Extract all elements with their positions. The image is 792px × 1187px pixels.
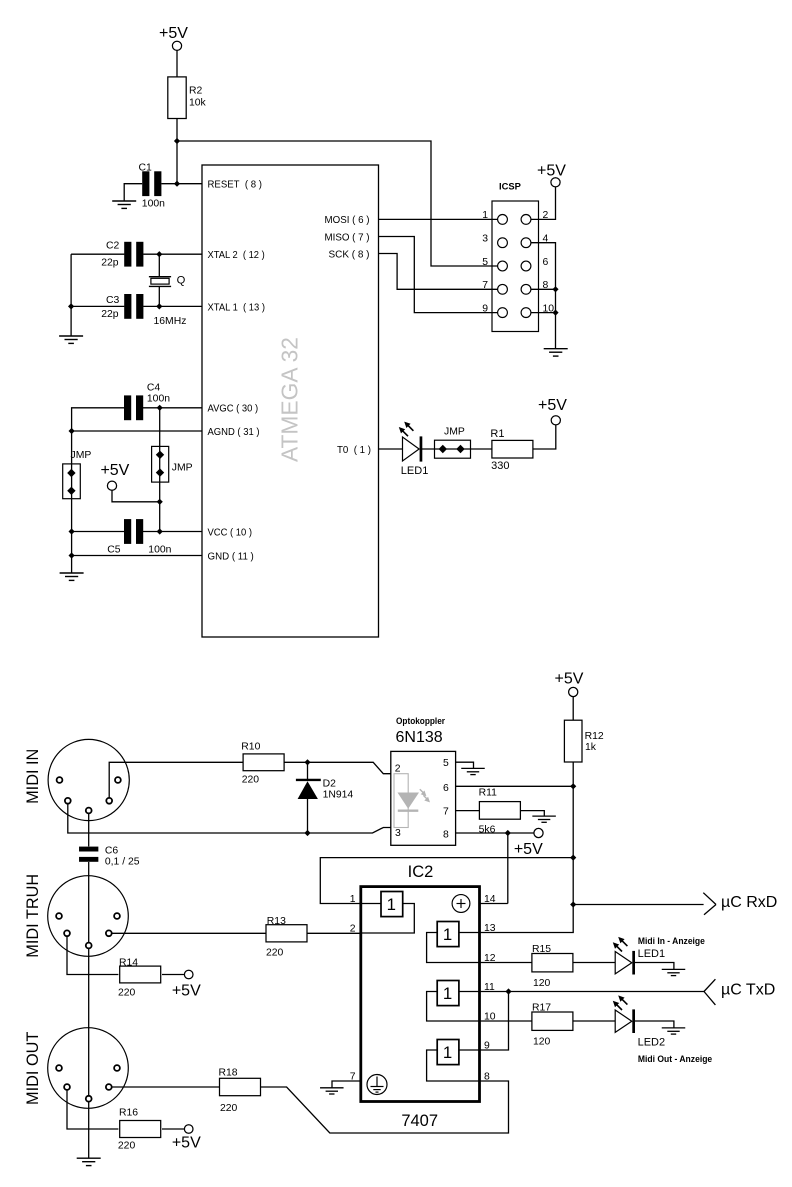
- led LED1 MIDI-in indicator: [613, 936, 705, 975]
- svg-text:GND ( 11 ): GND ( 11 ): [208, 551, 254, 562]
- svg-text:R14: R14: [119, 957, 138, 968]
- svg-text:R15: R15: [532, 944, 551, 955]
- node RxD junction: [570, 901, 576, 907]
- power +5V at R14: [172, 970, 201, 999]
- svg-text:µC RxD: µC RxD: [721, 894, 777, 911]
- connector MIDI OUT DIN socket: [24, 1028, 129, 1109]
- wire optocoupler pin 7 to R11: [456, 810, 480, 812]
- svg-text:C4: C4: [147, 382, 161, 393]
- wire +5V to R2: [176, 50, 178, 77]
- ground at MIDI OUT: [77, 1157, 101, 1159]
- node XTAL2 junction: [156, 251, 162, 257]
- pin MIDI TRUH 5: [64, 930, 70, 936]
- svg-text:+5V: +5V: [537, 162, 566, 179]
- svg-text:8: 8: [443, 829, 449, 840]
- wire MIDI OUT pin 4 to R18: [112, 1086, 220, 1088]
- svg-text:JMP: JMP: [71, 450, 92, 461]
- ground at LED1: [662, 968, 686, 970]
- svg-text:Optokoppler: Optokoppler: [396, 716, 445, 726]
- pin 6 ICSP: [521, 257, 548, 271]
- wire MIDI OUT pin 2 to ground: [88, 1102, 90, 1159]
- wire R17 to LED2: [573, 1020, 615, 1022]
- pin MIDI IN 4: [106, 798, 112, 804]
- svg-text:0,1 / 25: 0,1 / 25: [105, 857, 140, 868]
- svg-text:7: 7: [482, 280, 488, 291]
- wire C5 left leg: [72, 531, 125, 533]
- ground at R11: [532, 815, 556, 817]
- optocoupler U2 6N138 body: [391, 716, 456, 845]
- power +5V at R1: [538, 397, 567, 425]
- resistor R13 220: [266, 916, 307, 958]
- wire R12 to RxD node: [572, 762, 574, 905]
- resistor R18 220: [219, 1068, 261, 1115]
- jumper JMP left: [63, 450, 92, 499]
- power +5V at optocoupler pin 8: [514, 828, 543, 858]
- wire T0 to LED1: [379, 448, 403, 450]
- svg-text:9: 9: [482, 303, 488, 314]
- svg-text:100n: 100n: [147, 393, 170, 404]
- pin 9 ICSP: [482, 303, 507, 317]
- svg-text:VCC ( 10 ): VCC ( 10 ): [208, 527, 253, 538]
- wire LED1 to jumper: [422, 448, 492, 450]
- resistor R14 220: [118, 957, 161, 998]
- node +5V rail junction: [570, 855, 576, 861]
- node RESET pin junction: [174, 181, 180, 187]
- pin 8 ICSP: [521, 280, 548, 294]
- resistor R1 330: [490, 428, 533, 472]
- svg-text:D2: D2: [323, 779, 337, 790]
- svg-text:C6: C6: [105, 846, 119, 857]
- wire ICSP pin 8 stub: [531, 288, 556, 290]
- diode D2 1N914: [296, 762, 354, 833]
- svg-text:6: 6: [443, 783, 449, 794]
- node XTAL1 junction: [156, 303, 162, 309]
- wire VCC pin: [143, 531, 202, 533]
- node VCC right junction: [157, 528, 163, 534]
- capacitor C1 100n: [139, 162, 166, 209]
- wire R2 to RESET node: [176, 119, 178, 184]
- wire MIDI TRUH pin 2 down to MIDI OUT: [88, 948, 90, 1095]
- svg-text:AGND ( 31 ): AGND ( 31 ): [208, 427, 260, 438]
- power +5V at R12: [555, 670, 584, 696]
- power symbol inside IC2: [452, 895, 470, 913]
- capacitor C2 22p: [101, 240, 143, 268]
- svg-text:1: 1: [443, 1043, 452, 1062]
- wire LED1 to ground: [635, 963, 674, 970]
- wire IC2 pin 14 up to +5V node: [480, 903, 508, 905]
- capacitor C3 22p: [101, 294, 143, 320]
- svg-text:7: 7: [443, 806, 449, 817]
- pin MIDI OUT left: [56, 1065, 62, 1071]
- capacitor C4 100n: [124, 382, 170, 420]
- led LED1 (T0 indicator): [399, 422, 429, 478]
- node C3 ground junction: [68, 303, 74, 309]
- svg-text:1N914: 1N914: [323, 790, 354, 801]
- svg-text:Midi Out - Anzeige: Midi Out - Anzeige: [638, 1054, 712, 1064]
- wire XTAL2 to C2: [143, 253, 202, 255]
- svg-text:330: 330: [491, 460, 509, 472]
- svg-text:LED2: LED2: [638, 1036, 666, 1048]
- gate 4 buffer (pins 9-8): [427, 1040, 480, 1082]
- wire AGND pin: [72, 430, 202, 432]
- wire LED2 to ground: [635, 1021, 674, 1028]
- svg-text:+5V: +5V: [538, 397, 567, 414]
- wire uC RxD output: [573, 904, 703, 906]
- svg-text:IC2: IC2: [408, 863, 434, 881]
- svg-text:+5V: +5V: [172, 982, 201, 999]
- node D2 anode junction: [304, 759, 310, 765]
- resistor R12 1k: [564, 720, 603, 762]
- svg-text:120: 120: [533, 1037, 551, 1048]
- wire R13 to IC2 pin 2: [307, 932, 361, 934]
- pin 3 ICSP: [482, 234, 507, 248]
- pin MIDI IN 2: [86, 808, 92, 814]
- svg-text:16MHz: 16MHz: [154, 316, 187, 327]
- wire MIDI TRUH pin 5 to R14: [67, 936, 118, 974]
- power +5V (R2 pull-up supply): [159, 25, 188, 50]
- wire C2/C3 ground rail: [70, 254, 72, 336]
- svg-text:5: 5: [443, 758, 449, 769]
- svg-text:R18: R18: [219, 1068, 238, 1079]
- svg-text:120: 120: [533, 978, 551, 989]
- svg-text:5: 5: [482, 257, 488, 268]
- svg-text:1k: 1k: [585, 742, 597, 753]
- node jumper +5V junction: [157, 499, 163, 505]
- pin 4 ICSP: [521, 234, 548, 248]
- ground at ICSP: [544, 348, 568, 350]
- node R12 pin6 junction: [570, 783, 576, 789]
- wire optocoupler pin 6 to R12 node: [456, 785, 574, 787]
- svg-text:6N138: 6N138: [396, 729, 443, 746]
- svg-text:220: 220: [118, 1141, 136, 1152]
- pin MIDI IN 5: [65, 798, 71, 804]
- node TxD junction: [505, 988, 511, 994]
- node RESET junction at R2 branch: [174, 138, 180, 144]
- wire MIDI OUT pin 5 to R16: [67, 1090, 118, 1129]
- power +5V mid (VCC jumper): [100, 462, 129, 490]
- wire MIDI TRUH pin 4 to R13: [112, 932, 266, 934]
- svg-text:R17: R17: [532, 1003, 551, 1014]
- pin MIDI IN left: [57, 777, 63, 783]
- wire IC2 pin 10 to R17: [480, 1020, 532, 1022]
- svg-text:XTAL 2 ( 12 ): XTAL 2 ( 12 ): [208, 250, 265, 261]
- resistor R2 10k: [168, 77, 207, 119]
- resistor R11 5k6: [479, 788, 521, 836]
- svg-text:R10: R10: [241, 742, 260, 753]
- crystal Q 16MHz: [149, 254, 187, 327]
- connector MIDI TRUH DIN socket: [24, 874, 129, 958]
- wire MIDI IN pin 5 to optocoupler pin 3: [68, 804, 391, 833]
- svg-text:5k6: 5k6: [479, 825, 496, 836]
- wire MIDI IN pin 2 to C6: [88, 813, 90, 846]
- svg-text:1: 1: [482, 210, 488, 221]
- wire right jumper rail: [159, 408, 161, 532]
- svg-text:1: 1: [387, 895, 396, 914]
- pin MIDI OUT right: [114, 1065, 120, 1071]
- wire IC2 pin 13 to RxD node: [480, 905, 574, 933]
- svg-text:1: 1: [350, 894, 356, 905]
- svg-text:T0 ( 1 ): T0 ( 1 ): [337, 445, 371, 456]
- wire optocoupler pin 5 to ground: [456, 762, 474, 768]
- capacitor C6 0,1/25: [79, 846, 140, 868]
- wire C6 to MIDI TRUH: [88, 862, 90, 943]
- wire IC2 pin 7 to ground: [332, 1081, 361, 1088]
- wire MISO to ICSP pin 9: [379, 237, 498, 313]
- svg-text:10k: 10k: [189, 98, 207, 109]
- connector MIDI IN DIN socket: [24, 739, 129, 820]
- node GND junction: [69, 552, 75, 558]
- wire MIDI IN pin 4 to R10: [109, 762, 242, 797]
- pin MIDI TRUH 4: [106, 930, 112, 936]
- wire pin 8 node down to IC2 pin 14: [507, 833, 509, 904]
- led LED2 MIDI-out indicator: [613, 995, 712, 1063]
- pin 5 ICSP: [482, 257, 507, 271]
- svg-text:1: 1: [443, 925, 452, 944]
- wire +5V to jumper rail: [112, 490, 160, 502]
- svg-text:+5V: +5V: [172, 1135, 201, 1152]
- power +5V at ICSP pin 2: [537, 162, 566, 187]
- svg-text:22p: 22p: [101, 258, 119, 269]
- svg-text:+5V: +5V: [159, 25, 188, 42]
- wire ICSP pin 10 stub: [531, 312, 556, 314]
- svg-text:MIDI TRUH: MIDI TRUH: [24, 874, 42, 958]
- wire IC2 pin 12 to R15: [480, 962, 532, 964]
- pin MIDI OUT 2: [86, 1096, 92, 1102]
- wire R16 to +5V: [162, 1128, 184, 1130]
- svg-text:C1: C1: [139, 162, 153, 173]
- wire +5V rail to IC2 pin 1: [320, 858, 573, 904]
- svg-text:LED1: LED1: [401, 465, 429, 477]
- resistor R10 220: [241, 742, 284, 786]
- svg-text:ATMEGA 32: ATMEGA 32: [277, 337, 303, 462]
- gate 3 buffer (pins 11-10): [427, 981, 480, 1022]
- ground at left jumper rail: [60, 572, 84, 574]
- svg-text:3: 3: [395, 828, 401, 839]
- svg-text:+5V: +5V: [514, 841, 543, 858]
- svg-text:220: 220: [242, 774, 260, 785]
- svg-text:100n: 100n: [142, 199, 165, 210]
- wire R14 to +5V: [162, 974, 184, 976]
- svg-text:C3: C3: [106, 295, 120, 306]
- resistor R15 120: [532, 944, 573, 989]
- svg-text:C5: C5: [107, 544, 121, 555]
- jumper JMP right: [152, 446, 193, 482]
- node VCC left junction: [69, 528, 75, 534]
- gate 1 buffer (pins 1-2): [361, 892, 415, 934]
- svg-text:R12: R12: [585, 731, 604, 742]
- wire R15 to LED1: [573, 962, 615, 964]
- svg-text:MIDI OUT: MIDI OUT: [24, 1032, 42, 1105]
- wire +5V to ICSP pin 2: [531, 187, 556, 220]
- arrow uC TxD: [704, 979, 775, 1005]
- wire C1 right to RESET pin: [161, 183, 202, 185]
- svg-text:3: 3: [482, 234, 488, 245]
- connector ICSP header: [492, 181, 539, 332]
- svg-text:220: 220: [220, 1103, 238, 1114]
- node ICSP pin 10 junction: [552, 310, 558, 316]
- node pin 8 +5V junction: [505, 830, 511, 836]
- wire R1 to +5V: [533, 425, 556, 449]
- node ICSP pin 8 junction: [552, 286, 558, 292]
- wire R11 to ground: [520, 811, 544, 817]
- svg-text:2: 2: [395, 763, 401, 774]
- ground symbol inside IC2: [367, 1075, 387, 1095]
- svg-text:JMP: JMP: [444, 426, 465, 437]
- pin 10 ICSP: [521, 303, 554, 317]
- svg-text:AVGC ( 30 ): AVGC ( 30 ): [208, 404, 259, 415]
- svg-text:R11: R11: [479, 788, 498, 799]
- svg-text:Q: Q: [177, 274, 186, 286]
- pin MIDI TRUH 2: [86, 943, 92, 949]
- svg-text:LED1: LED1: [638, 948, 666, 960]
- svg-text:7407: 7407: [401, 1112, 438, 1130]
- resistor R17 120: [532, 1003, 573, 1048]
- svg-text:R1: R1: [490, 428, 504, 440]
- pin 7 ICSP: [482, 280, 507, 294]
- wire +5V to R12: [572, 697, 574, 721]
- wire SCK to ICSP pin 7: [379, 254, 498, 290]
- wire optocoupler pin 8 to +5V: [456, 832, 534, 834]
- power +5V at R16: [172, 1125, 201, 1152]
- ground at LED2: [662, 1027, 686, 1029]
- svg-text:XTAL 1 ( 13 ): XTAL 1 ( 13 ): [208, 302, 266, 313]
- wire GND pin: [72, 555, 202, 557]
- wire C2 left leg: [71, 253, 124, 255]
- wire IC2 pin 8 to R18 (loop): [260, 1081, 508, 1133]
- ic U1 ATMEGA 32 body: [202, 165, 379, 637]
- pin MIDI OUT 4: [106, 1084, 112, 1090]
- svg-text:MOSI ( 6 ): MOSI ( 6 ): [325, 215, 370, 226]
- svg-text:R16: R16: [119, 1107, 138, 1118]
- svg-text:R2: R2: [189, 86, 203, 97]
- optocoupler internal LED (gray): [394, 774, 430, 828]
- svg-text:Midi In - Anzeige: Midi In - Anzeige: [638, 936, 705, 946]
- svg-text:1: 1: [443, 984, 452, 1003]
- node D2 cathode junction: [304, 830, 310, 836]
- ground at C2/C3: [59, 335, 83, 337]
- svg-text:R13: R13: [267, 916, 286, 927]
- capacitor C5 100n: [107, 519, 171, 555]
- wire AVGC to C4: [143, 407, 202, 409]
- gate 2 buffer (pins 13-12): [427, 922, 480, 963]
- svg-text:MIDI IN: MIDI IN: [24, 749, 42, 804]
- ground at optocoupler pin 5: [461, 767, 485, 769]
- svg-text:100n: 100n: [148, 544, 171, 555]
- arrow uC RxD: [703, 893, 777, 915]
- svg-text:+5V: +5V: [100, 462, 129, 479]
- ic IC2 7407 body: [361, 863, 480, 1130]
- svg-text:SCK ( 8 ): SCK ( 8 ): [329, 249, 370, 260]
- pin MIDI IN right: [115, 777, 121, 783]
- resistor R16 220: [118, 1107, 161, 1151]
- wire C4 left to AGND corner: [72, 408, 125, 431]
- svg-text:JMP: JMP: [172, 463, 193, 474]
- wire MOSI to ICSP pin 1: [379, 218, 498, 220]
- wire R10 to optocoupler pin 2: [284, 762, 391, 773]
- wire left jumper rail: [71, 431, 73, 573]
- wire XTAL1 to C3: [143, 305, 202, 307]
- pin MIDI TRUH left: [56, 913, 62, 919]
- pin 2 ICSP: [521, 210, 548, 224]
- jumper JMP at T0: [435, 426, 471, 458]
- wire uC TxD input: [509, 991, 705, 993]
- wire C1 left to ground: [124, 184, 142, 201]
- svg-text:6: 6: [543, 257, 549, 268]
- wire IC2 pin 11 to TxD node: [480, 991, 509, 993]
- svg-text:22p: 22p: [101, 309, 119, 320]
- svg-text:+5V: +5V: [555, 670, 584, 687]
- wire RESET net to ICSP pin 5: [177, 141, 498, 266]
- wire pin 11 to pin 9 link: [480, 992, 509, 1051]
- svg-text:220: 220: [118, 987, 136, 998]
- ground at IC2 pin 7: [320, 1087, 344, 1089]
- wire ICSP pin 4 ground rail: [531, 243, 556, 349]
- node AVGC junction: [157, 405, 163, 411]
- svg-text:RESET ( 8 ): RESET ( 8 ): [208, 180, 262, 191]
- svg-text:MISO ( 7 ): MISO ( 7 ): [325, 232, 370, 243]
- wire C3 left leg: [71, 305, 124, 307]
- svg-text:220: 220: [266, 947, 284, 958]
- pin MIDI TRUH right: [114, 913, 120, 919]
- pin 1 ICSP: [482, 210, 507, 224]
- ground at C1: [112, 200, 136, 202]
- node AGND junction: [69, 428, 75, 434]
- svg-text:C2: C2: [106, 240, 120, 251]
- pin MIDI OUT 5: [64, 1084, 70, 1090]
- svg-text:ICSP: ICSP: [499, 181, 521, 192]
- svg-text:µC TxD: µC TxD: [721, 982, 775, 999]
